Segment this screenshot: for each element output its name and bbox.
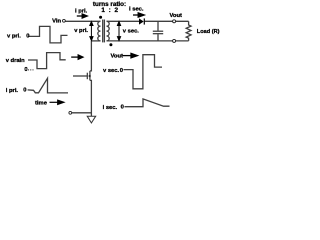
waveform v drain bbox=[28, 53, 66, 69]
svg-text:Vout: Vout bbox=[111, 54, 124, 60]
MOSFET Q1 bbox=[87, 71, 90, 81]
svg-text:v pri.: v pri. bbox=[7, 33, 21, 39]
ground bbox=[87, 116, 96, 123]
svg-text:0: 0 bbox=[121, 104, 124, 110]
time axis arrow bbox=[50, 100, 64, 104]
transformer T1 primary winding bbox=[98, 21, 101, 41]
Vout pointer arrow bbox=[123, 53, 138, 57]
svg-text:0: 0 bbox=[23, 87, 26, 93]
v pri arrow (double headed) bbox=[90, 22, 93, 41]
wire Vin rail bbox=[65, 20, 100, 22]
v drain pointer arrow bbox=[71, 55, 83, 59]
diode D1 bbox=[139, 18, 145, 24]
transformer primary phase dot bbox=[99, 16, 102, 19]
svg-text:Load (R): Load (R) bbox=[197, 29, 220, 35]
terminal input return bbox=[69, 111, 72, 114]
terminal Vin bbox=[63, 19, 66, 22]
transformer T1 core bbox=[103, 20, 105, 43]
waveform i sec bbox=[125, 99, 170, 107]
svg-text:v drain: v drain bbox=[6, 58, 25, 64]
i pri arrow bbox=[77, 14, 87, 18]
i sec arrow bbox=[133, 13, 144, 17]
capacitor C plates bbox=[153, 31, 163, 34]
wire gate stub bbox=[73, 75, 87, 77]
wire cathode to load bbox=[145, 20, 189, 22]
wire drain bbox=[90, 41, 92, 71]
svg-text:v pri.: v pri. bbox=[74, 28, 88, 34]
svg-text:time: time bbox=[35, 101, 48, 107]
svg-text:i sec.: i sec. bbox=[103, 105, 118, 111]
svg-text:0: 0 bbox=[120, 68, 123, 74]
svg-text:1 : 2: 1 : 2 bbox=[101, 7, 119, 14]
svg-text:v sec.: v sec. bbox=[103, 68, 120, 74]
svg-text:i pri.: i pri. bbox=[6, 88, 19, 94]
waveform v pri bbox=[28, 26, 67, 43]
wire top secondary rail bbox=[107, 20, 140, 22]
transformer T1 secondary winding bbox=[107, 21, 110, 41]
wire source bbox=[90, 80, 92, 116]
terminal Vout+ bbox=[173, 20, 176, 23]
waveform i pri bbox=[28, 78, 68, 93]
wire primary bottom stub bbox=[91, 40, 100, 42]
capacitor C lead bottom bbox=[157, 34, 159, 41]
svg-text:i pri.: i pri. bbox=[75, 9, 88, 15]
MOSFET Q1 arrow bbox=[88, 75, 91, 78]
wire bottom secondary rail bbox=[107, 40, 189, 42]
svg-text:0: 0 bbox=[26, 33, 29, 39]
wire input return bbox=[72, 112, 92, 114]
resistor Load (R) bbox=[186, 21, 191, 41]
svg-text:Vin: Vin bbox=[52, 18, 61, 24]
terminal Vout- bbox=[173, 39, 176, 42]
transformer secondary phase dot bbox=[109, 43, 112, 46]
svg-text:v sec.: v sec. bbox=[123, 29, 140, 35]
v sec arrow (double headed) bbox=[117, 22, 120, 41]
svg-text:i sec.: i sec. bbox=[129, 7, 144, 13]
svg-text:0: 0 bbox=[24, 67, 27, 73]
svg-text:Vout: Vout bbox=[170, 13, 183, 19]
waveform v sec bbox=[124, 55, 163, 89]
capacitor C lead top bbox=[157, 21, 159, 30]
